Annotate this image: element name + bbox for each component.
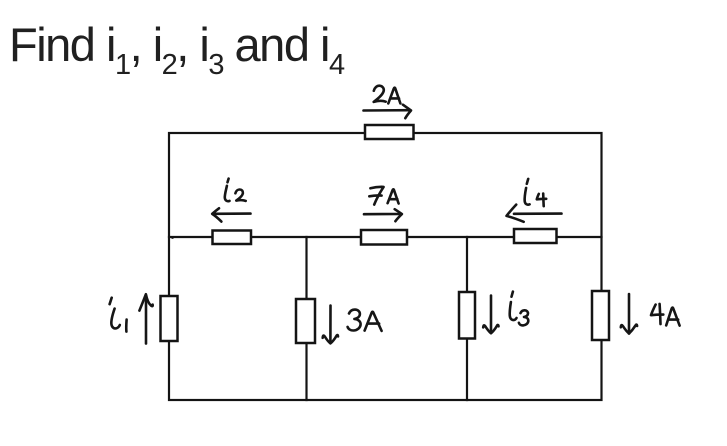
- arrow for i4 (left): [507, 205, 562, 222]
- wire: outer loop (top, left, right, bottom): [169, 133, 602, 400]
- wire: middle horizontal bus: [169, 236, 602, 238]
- label 7A (handwritten): [369, 187, 398, 205]
- resistor: i3 branch (vertical): [459, 292, 475, 339]
- node: junction nub at left bus connection: [171, 236, 174, 239]
- wire: branch at node C (x=467): [466, 237, 468, 400]
- resistor: i1 branch (left vertical): [161, 296, 178, 341]
- arrow for 7A (right): [364, 209, 402, 221]
- arrow for 2A (right): [364, 105, 412, 119]
- label i2 (handwritten): [225, 179, 246, 202]
- arrow for i2 (left): [212, 208, 250, 221]
- resistor: i4 branch: [514, 229, 557, 243]
- arrow for i3 (down): [483, 296, 498, 334]
- label 4A (handwritten): [651, 304, 680, 326]
- resistor: 3A branch (vertical): [296, 299, 315, 343]
- wire: branch at node B (x=306.5): [305, 237, 307, 400]
- label 3A (handwritten): [348, 310, 382, 331]
- resistor: i2 branch: [213, 231, 252, 245]
- resistor: 4A branch (right vertical): [592, 291, 609, 340]
- label i4 (handwritten): [525, 179, 547, 206]
- resistor: 7A branch: [361, 230, 407, 245]
- label i3 (handwritten): [510, 292, 529, 326]
- label i1 (handwritten): [110, 298, 127, 332]
- arrow for 4A (down): [621, 294, 637, 334]
- arrow for 3A (down): [323, 306, 338, 344]
- resistor: 2A branch (top): [365, 125, 414, 139]
- arrow for i1 (up): [139, 294, 152, 343]
- label 2A (handwritten): [374, 86, 401, 104]
